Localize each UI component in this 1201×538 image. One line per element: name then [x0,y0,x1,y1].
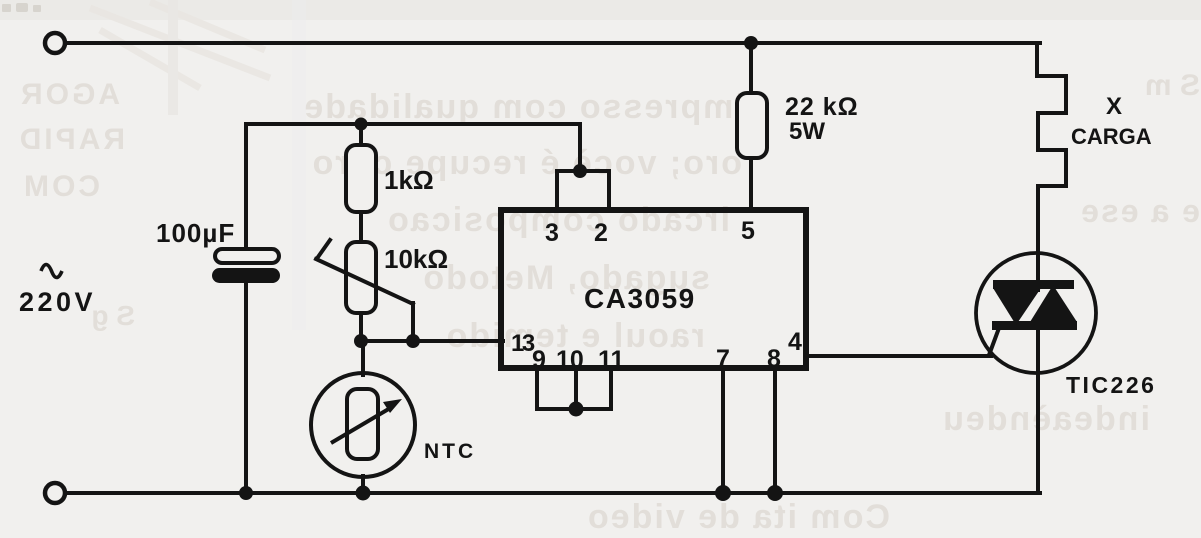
svg-text:S g: S g [91,300,135,331]
svg-text:8: 8 [767,345,781,373]
svg-text:TIC226: TIC226 [1066,372,1156,398]
svg-text:9: 9 [532,346,546,374]
svg-text:3: 3 [545,219,559,247]
svg-text:COM: COM [21,170,100,203]
svg-text:CARGA: CARGA [1071,124,1152,149]
svg-text:4: 4 [788,328,802,356]
svg-text:X: X [1106,93,1122,120]
svg-text:11: 11 [598,346,625,374]
svg-text:e a ese: e a ese [1079,193,1200,229]
svg-text:7: 7 [716,345,730,373]
svg-text:Com ita de video: Com ita de video [586,498,890,536]
svg-text:5W: 5W [789,118,825,145]
svg-text:1kΩ: 1kΩ [384,165,434,195]
svg-text:RAPID: RAPID [17,123,125,156]
svg-text:10kΩ: 10kΩ [384,244,448,274]
svg-text:10: 10 [556,346,584,374]
svg-text:22 kΩ: 22 kΩ [785,93,859,121]
svg-text:220V: 220V [19,287,96,317]
svg-text:CA3059: CA3059 [584,283,696,314]
svg-text:5: 5 [741,217,755,245]
svg-text:S m: S m [1145,69,1200,102]
svg-text:impresso com qualidade: impresso com qualidade [302,88,745,126]
svg-text:indeaèndeu: indeaèndeu [941,400,1150,438]
svg-text:NTC: NTC [424,440,476,463]
svg-text:2: 2 [594,219,608,247]
svg-text:100µF: 100µF [156,218,235,248]
svg-text:AGOR: AGOR [18,78,120,111]
